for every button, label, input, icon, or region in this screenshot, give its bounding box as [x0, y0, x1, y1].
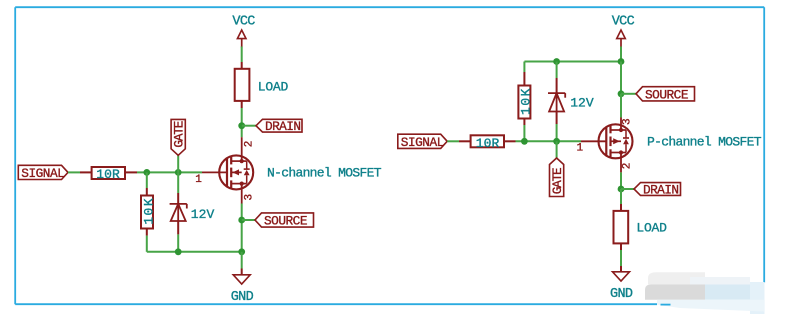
global label DRAIN (left) — [256, 119, 302, 134]
junction drain node (left) — [238, 122, 245, 129]
wire VCC to top rail (right) — [620, 47, 622, 62]
svg-text:1: 1 — [195, 174, 202, 186]
wire SIGNAL to 10R (left) — [68, 171, 92, 173]
resistor LOAD (left) — [235, 69, 250, 101]
svg-text:2: 2 — [244, 141, 256, 148]
wire LOAD to MOSFET drain (left) — [241, 101, 243, 137]
junction 10K top (left) — [143, 169, 150, 176]
wire junction to 10K (left) — [146, 172, 148, 195]
svg-text:GND: GND — [610, 287, 633, 302]
svg-text:GATE: GATE — [550, 167, 565, 194]
svg-text:LOAD: LOAD — [258, 79, 289, 94]
resistor 10R (left) — [92, 167, 125, 179]
global label SIGNAL (left) — [18, 165, 68, 181]
wire source junction to MOSFET (right) — [620, 94, 622, 118]
global label SOURCE (right) — [636, 87, 695, 103]
svg-text:12V: 12V — [191, 207, 215, 222]
svg-text:P-channel MOSFET: P-channel MOSFET — [647, 135, 762, 150]
wire 10K to gate wire (right) — [523, 119, 525, 142]
svg-text:SIGNAL: SIGNAL — [21, 166, 65, 181]
power symbol GND (right) — [610, 272, 633, 302]
zener diode D1 (left) — [170, 204, 187, 221]
svg-text:GND: GND — [231, 290, 254, 305]
svg-text:VCC: VCC — [232, 14, 255, 29]
wire SIGNAL to 10R (right) — [447, 140, 470, 142]
svg-text:N-channel MOSFET: N-channel MOSFET — [267, 166, 382, 181]
junction source node (left) — [238, 217, 245, 224]
svg-text:LOAD: LOAD — [636, 221, 667, 236]
wire VCC to LOAD (left) — [241, 47, 243, 69]
wire ground rail (left) — [147, 251, 242, 253]
svg-text:SOURCE: SOURCE — [264, 214, 308, 229]
svg-text:VCC: VCC — [612, 14, 635, 29]
resistor LOAD (right) — [614, 211, 629, 244]
power symbol VCC (left) — [232, 14, 255, 47]
wire 10K to ground rail (left) — [146, 229, 148, 252]
svg-text:DRAIN: DRAIN — [643, 183, 679, 198]
svg-text:GATE: GATE — [172, 120, 187, 147]
global label DRAIN (right) — [634, 183, 681, 198]
global label GATE (left) — [171, 119, 187, 155]
wire rail to GND (left) — [241, 252, 243, 275]
junction ground rail (left) — [238, 248, 245, 255]
global label SIGNAL (right) — [398, 134, 447, 150]
svg-text:10K: 10K — [141, 198, 156, 225]
junction source node (right) — [618, 90, 625, 97]
svg-text:10R: 10R — [476, 136, 500, 151]
wire drain junction to DRAIN label (left) — [242, 125, 256, 127]
wire MOSFET source to rail (left) — [241, 204, 243, 252]
resistor 10R (right) — [471, 135, 504, 147]
wire rail to SOURCE junction (right) — [620, 62, 622, 94]
svg-text:12V: 12V — [570, 96, 594, 111]
wire source junction to SOURCE label (left) — [242, 219, 255, 221]
resistor 10K (right) — [518, 86, 530, 119]
wire GATE label stub (left) — [177, 155, 179, 172]
power symbol GND (left) — [231, 275, 254, 305]
svg-text:SOURCE: SOURCE — [645, 87, 689, 102]
svg-text:3: 3 — [622, 118, 634, 125]
global label GATE (right) — [550, 158, 566, 197]
n-channel MOSFET Q1 — [202, 137, 253, 203]
wire top rail (right) — [524, 62, 621, 86]
junction drain node (right) — [618, 186, 625, 193]
junction VCC rail (right) — [618, 58, 625, 65]
junction zener top / gate label (left) — [175, 169, 182, 176]
wire drain junction to DRAIN label (right) — [621, 188, 634, 190]
svg-text:10R: 10R — [96, 167, 120, 182]
power symbol VCC (right) — [612, 14, 635, 47]
svg-text:SIGNAL: SIGNAL — [401, 135, 445, 150]
junction zener bottom (left) — [175, 248, 182, 255]
wire DRAIN to LOAD (right) — [620, 189, 622, 211]
wire 10R to MOSFET gate (right) — [504, 140, 581, 142]
svg-text:3: 3 — [244, 194, 256, 201]
wire zener top (right) — [556, 62, 558, 94]
junction 10K bottom (right) — [521, 138, 528, 145]
wire source junction to SOURCE label (right) — [621, 93, 636, 95]
svg-text:DRAIN: DRAIN — [265, 119, 301, 134]
wire GATE label stub (right) — [556, 141, 558, 158]
svg-text:2: 2 — [622, 163, 634, 170]
wire zener to gate wire (right) — [556, 112, 558, 142]
global label SOURCE (left) — [255, 213, 314, 229]
wire zener top (left) — [177, 172, 179, 204]
wire MOSFET drain to DRAIN junction (right) — [620, 172, 622, 189]
junction zener rail (right) — [553, 58, 560, 65]
wire 10R to MOSFET gate (left) — [125, 171, 202, 173]
svg-text:10K: 10K — [519, 88, 534, 115]
zener diode D2 (right) — [548, 93, 565, 111]
resistor 10K (left) — [141, 196, 153, 229]
wire zener to ground rail (left) — [177, 221, 179, 252]
svg-text:1: 1 — [577, 142, 584, 154]
junction zener bottom / gate label (right) — [553, 138, 560, 145]
p-channel MOSFET Q2 — [581, 118, 633, 173]
wire LOAD to GND (right) — [620, 243, 622, 271]
